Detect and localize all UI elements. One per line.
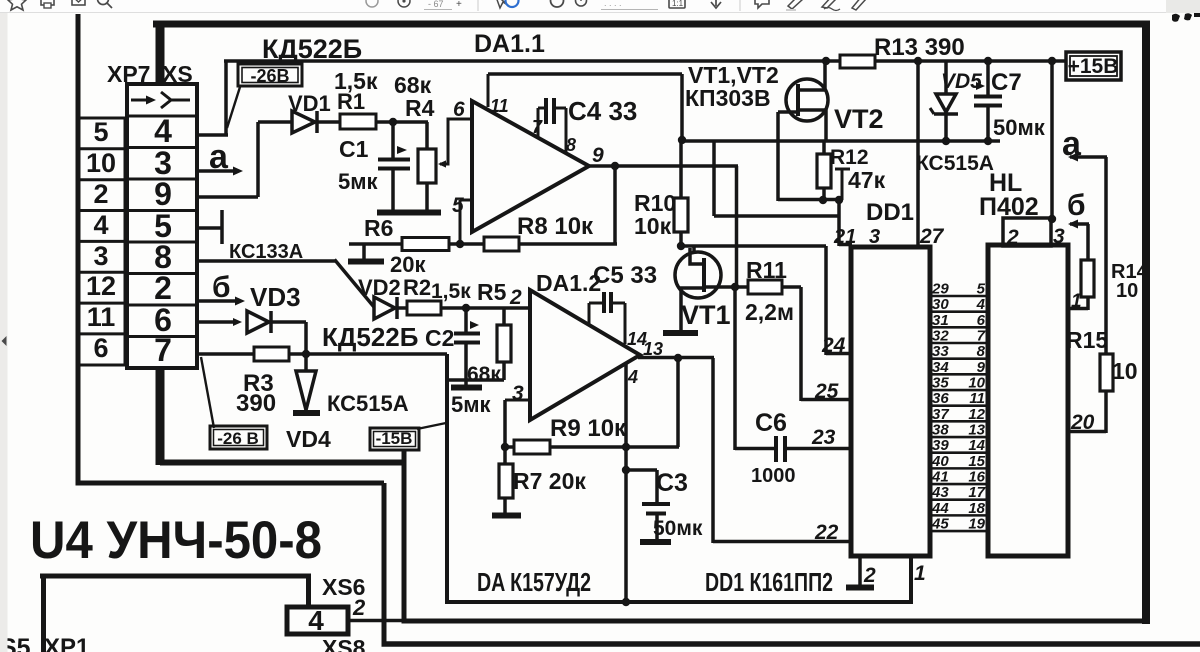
toolbar icon: signature <box>822 0 837 8</box>
svg-text:- 67: - 67 <box>428 0 444 9</box>
wire R11 to DD1 pin25 <box>782 285 801 289</box>
svg-text:2,2м: 2,2м <box>745 299 794 325</box>
svg-text:+15В: +15В <box>1068 55 1119 78</box>
svg-text:VD3: VD3 <box>250 282 301 312</box>
svg-text:32: 32 <box>932 328 949 345</box>
toolbar icon: edit pen <box>852 0 866 10</box>
svg-text:20: 20 <box>1070 411 1095 434</box>
wire R5 bottom to shield <box>447 378 504 382</box>
frame left drop to XS8 <box>382 483 387 646</box>
wire R15 to HL pin20 <box>1104 391 1108 433</box>
sidebar strip <box>0 13 8 652</box>
svg-text:DD1 К161ПП2: DD1 К161ПП2 <box>705 567 833 597</box>
sidebar collapse arrow <box>2 336 7 346</box>
toolbar icon: save/envelope (bottom half) <box>72 0 85 5</box>
capacitor C6 <box>735 447 776 451</box>
svg-text:2: 2 <box>509 286 522 309</box>
svg-text:68к: 68к <box>467 363 501 386</box>
svg-text:R4: R4 <box>405 95 435 121</box>
svg-text:18: 18 <box>968 500 985 517</box>
wire row7 R3 line <box>197 352 447 356</box>
svg-text:DA1.1: DA1.1 <box>474 30 545 58</box>
resistor R12 <box>822 141 826 154</box>
ground bar R6 <box>362 245 366 259</box>
resistor R9 <box>514 440 550 454</box>
svg-text:11: 11 <box>969 390 985 407</box>
toolbar icon: search magnifier (bottom half) <box>98 0 109 5</box>
svg-text:R13 390: R13 390 <box>874 34 965 61</box>
capacitor C1 polarized <box>391 122 395 158</box>
toolbar icon: download arrow <box>715 0 717 6</box>
indicator HL P402 body <box>988 245 1068 556</box>
svg-text:1:1: 1:1 <box>672 0 684 8</box>
svg-text:6: 6 <box>977 312 986 329</box>
svg-text:2: 2 <box>93 179 108 209</box>
svg-text:C5 33: C5 33 <box>593 262 657 289</box>
svg-text:2: 2 <box>352 595 366 620</box>
R4 wiper to pin6 <box>440 163 448 166</box>
wire R10 to VT1 drain rail <box>679 232 683 247</box>
svg-text:R8 10к: R8 10к <box>517 213 594 240</box>
DD1-HL interconnect ladder <box>930 295 988 298</box>
svg-text:DD1: DD1 <box>866 199 914 226</box>
svg-text:19: 19 <box>968 516 985 533</box>
HL top pin box <box>1003 218 1051 246</box>
scan marks top right corner <box>1172 14 1180 22</box>
wire rail to HL top box <box>1050 61 1054 218</box>
wire row6 to VD3 <box>197 320 234 324</box>
svg-text:7: 7 <box>154 332 172 368</box>
svg-text:C3: C3 <box>656 469 688 497</box>
long bottom line L3 <box>382 641 1200 647</box>
resistor R6 <box>402 238 449 251</box>
leader -26V box <box>227 87 240 128</box>
wire XS6 pin2 <box>348 619 404 623</box>
svg-text:DA К157УД2: DA К157УД2 <box>477 567 591 597</box>
connector row divider <box>127 146 197 149</box>
svg-text:2: 2 <box>863 564 876 587</box>
svg-text:20к: 20к <box>390 252 426 277</box>
svg-text:5мк: 5мк <box>338 169 379 194</box>
svg-text:38: 38 <box>932 422 949 439</box>
connector row divider <box>127 272 197 275</box>
svg-text:10к: 10к <box>634 213 672 239</box>
block U4 box top <box>40 574 311 579</box>
svg-text:1000: 1000 <box>751 465 796 487</box>
svg-text:12: 12 <box>86 271 116 301</box>
svg-text:R7 20к: R7 20к <box>513 468 586 494</box>
svg-text:3: 3 <box>1053 225 1065 248</box>
capacitor C4 <box>537 108 540 137</box>
block U4 box left <box>41 576 46 652</box>
toolbar icon: star (bottom half) <box>8 0 26 10</box>
ground bar VT1 source <box>663 330 698 336</box>
connector row divider <box>127 304 197 307</box>
svg-text:2: 2 <box>154 270 172 306</box>
svg-text:КП303В: КП303В <box>685 85 771 111</box>
power box +15V <box>1066 52 1121 80</box>
connector row divider <box>127 178 197 181</box>
wire rail tap to pin21 net <box>712 141 716 216</box>
svg-text:5: 5 <box>452 194 464 217</box>
svg-text:25: 25 <box>814 380 839 403</box>
toolbar icon: circle tool 3 <box>576 0 587 6</box>
svg-text:4: 4 <box>627 367 638 387</box>
svg-text:14: 14 <box>968 437 985 454</box>
svg-text:15: 15 <box>968 453 985 470</box>
svg-text:23: 23 <box>811 426 836 449</box>
svg-text:17: 17 <box>968 484 985 501</box>
svg-text:1: 1 <box>1071 291 1082 312</box>
svg-text:5: 5 <box>93 117 108 147</box>
svg-text:КС515А: КС515А <box>327 391 409 416</box>
svg-text:4: 4 <box>154 113 172 149</box>
svg-text:3: 3 <box>512 382 524 405</box>
frame left border <box>76 14 81 486</box>
toolbar icon: printer (bottom half) <box>41 0 54 5</box>
svg-text:41: 41 <box>931 469 949 486</box>
toolbar icon: circle tool 2 <box>551 0 564 7</box>
long bottom line L2 <box>402 619 1149 624</box>
diode VD1 <box>292 111 315 133</box>
svg-text:9: 9 <box>977 359 986 376</box>
capacitor C7 polarized <box>986 61 990 96</box>
wire R14 to HL pin1 <box>1086 297 1090 310</box>
resistor R7 <box>503 447 507 464</box>
toolbar icon: info circle <box>366 0 378 7</box>
svg-text:XS: XS <box>162 61 193 87</box>
svg-text:31: 31 <box>932 312 949 329</box>
svg-text:R12: R12 <box>830 146 869 169</box>
frame right border <box>1142 21 1150 625</box>
svg-text:5: 5 <box>977 281 986 298</box>
power box -26V bottom <box>210 426 267 449</box>
svg-text:8: 8 <box>566 135 576 155</box>
svg-text:4: 4 <box>976 296 986 313</box>
svg-text:. . . .: . . . . <box>604 0 622 8</box>
svg-text:R1: R1 <box>337 89 365 114</box>
svg-text:10: 10 <box>1116 280 1138 302</box>
leader -26V box 2 <box>201 357 214 428</box>
svg-text:U4 УНЧ-50-8: U4 УНЧ-50-8 <box>30 511 322 570</box>
svg-text:9: 9 <box>154 176 172 212</box>
svg-text:29: 29 <box>931 281 949 298</box>
svg-text:36: 36 <box>932 390 949 407</box>
wire VT1 source node to C6 <box>733 287 737 450</box>
lower rail wire <box>682 139 1000 143</box>
resistor R8 <box>484 237 519 251</box>
svg-text:50мк: 50мк <box>653 517 703 540</box>
wire VT2 gate / R12 to DD1 pin21 <box>778 198 841 202</box>
resistor R14 <box>1081 260 1094 297</box>
trimmer R4 <box>425 122 429 149</box>
svg-text:8: 8 <box>977 343 986 360</box>
wire output to DD1 pin22 <box>711 358 715 543</box>
connector XS body <box>127 84 197 368</box>
toolbar divider <box>477 0 479 11</box>
diode VD3 <box>247 311 269 333</box>
svg-text:VD1: VD1 <box>288 91 331 116</box>
svg-text:КС515А: КС515А <box>916 152 994 175</box>
svg-text:C7: C7 <box>991 69 1022 96</box>
IC DD1 K161PP2 body <box>851 247 930 556</box>
svg-text:-15В: -15В <box>376 429 413 448</box>
toolbar icon: fit to page <box>669 0 685 8</box>
wire DA1.2 output <box>638 356 714 360</box>
capacitor C2 polarized <box>464 308 468 332</box>
svg-text:2: 2 <box>1006 226 1019 249</box>
svg-text:24: 24 <box>821 334 846 357</box>
inner thick bus vertical XP7 top <box>156 24 165 86</box>
svg-text:12: 12 <box>968 406 985 423</box>
svg-text:R15: R15 <box>1066 327 1108 353</box>
ground bar R7 <box>492 513 521 519</box>
connector row divider <box>127 241 197 244</box>
wire DA1.1 output to VT1 gate node <box>735 166 739 288</box>
shield wire vertical from R3 node <box>445 354 449 604</box>
svg-text:10: 10 <box>86 148 116 178</box>
DD1 pin 1 riser <box>909 556 913 604</box>
svg-text:13: 13 <box>968 422 985 439</box>
svg-text:XS8: XS8 <box>322 635 366 652</box>
wire rail to DD1 pin27 <box>916 61 920 247</box>
svg-text:КД522Б: КД522Б <box>262 34 362 64</box>
svg-text:3: 3 <box>93 241 108 271</box>
toolbar icon: select cursor <box>495 0 509 8</box>
toolbar icon: target circle <box>398 0 410 7</box>
wire R1 to R4 node <box>376 120 428 124</box>
svg-text:VT2: VT2 <box>834 104 884 134</box>
svg-text:ХР7: ХР7 <box>107 61 150 87</box>
resistor R10 <box>679 141 683 198</box>
capacitor C3 <box>626 468 657 472</box>
common bar under C1 R4 <box>377 210 441 216</box>
toolbar divider 2 <box>739 0 741 11</box>
svg-text:9: 9 <box>592 144 604 167</box>
feedback line R9 <box>505 445 679 449</box>
svg-text:+: + <box>456 0 462 10</box>
svg-text:35: 35 <box>932 375 949 392</box>
connector XP7 pin column <box>78 118 125 365</box>
svg-text:10: 10 <box>1112 358 1138 384</box>
leader -15V box <box>417 423 446 429</box>
zener VD4 <box>304 354 308 371</box>
resistor R13 <box>840 55 875 68</box>
wire to DD1 pin24 <box>824 246 828 355</box>
connector row divider <box>127 115 197 118</box>
svg-text:390: 390 <box>236 390 276 417</box>
scrollbar corner top right <box>1166 0 1200 13</box>
svg-text:47к: 47к <box>848 167 886 193</box>
svg-text:C6: C6 <box>755 409 787 437</box>
wire pin3 <box>505 399 530 402</box>
zener VD5 <box>944 61 948 94</box>
svg-text:11: 11 <box>87 302 116 332</box>
toolbar icon: highlighter pen <box>788 0 803 9</box>
svg-text:-26 В: -26 В <box>217 429 259 448</box>
R12 tap mark <box>835 168 850 171</box>
loop pin11 C4 <box>487 74 490 107</box>
power box -15V <box>370 428 419 450</box>
svg-text:7: 7 <box>977 328 986 345</box>
svg-text:6: 6 <box>453 98 465 121</box>
shield wire bottom L1 <box>445 600 913 604</box>
svg-text:45: 45 <box>931 516 949 533</box>
svg-text:11: 11 <box>490 96 509 116</box>
svg-text:3: 3 <box>869 226 880 248</box>
wire b to R14 <box>1086 224 1090 261</box>
svg-text:DA1.2: DA1.2 <box>536 270 601 296</box>
svg-text:33: 33 <box>932 343 949 360</box>
svg-text:R2: R2 <box>403 275 431 300</box>
resistor R1 <box>340 114 376 129</box>
svg-text:C1: C1 <box>339 136 369 162</box>
connector row divider <box>127 209 197 212</box>
svg-text:4: 4 <box>93 210 108 240</box>
svg-text:6: 6 <box>93 333 108 363</box>
connector row divider <box>127 335 197 338</box>
wire -15V net drop vertical <box>402 450 407 624</box>
svg-text:XP1: XP1 <box>44 634 89 652</box>
svg-text:R5: R5 <box>477 279 507 305</box>
svg-text:б: б <box>1067 189 1086 222</box>
wire row9 to VD1 <box>197 195 258 199</box>
svg-text:5мк: 5мк <box>451 392 492 417</box>
svg-text:40: 40 <box>931 453 949 470</box>
wire row4 to supply rail <box>197 133 228 137</box>
svg-text:VD2: VD2 <box>358 275 401 300</box>
svg-text:50мк: 50мк <box>993 115 1046 140</box>
svg-text:1: 1 <box>914 562 926 585</box>
transistor VT1 <box>675 252 721 298</box>
svg-text:VD5: VD5 <box>941 70 982 93</box>
browser pdf-viewer toolbar strip <box>0 0 1200 13</box>
svg-text:10: 10 <box>968 375 985 392</box>
svg-text:39: 39 <box>932 437 949 454</box>
connector XS6 pin box 4 <box>287 607 348 634</box>
frame top border <box>153 21 1149 28</box>
svg-text:34: 34 <box>932 359 949 376</box>
svg-text:VT1: VT1 <box>681 300 731 330</box>
svg-text:R6: R6 <box>364 215 393 241</box>
svg-text:16: 16 <box>968 469 985 486</box>
inner thick bus vertical XP7 bottom <box>156 366 165 465</box>
svg-text:R9 10к: R9 10к <box>550 415 627 442</box>
transistor VT2 <box>786 79 828 121</box>
DD1 pin2 ground <box>858 556 862 585</box>
svg-text:КД522Б: КД522Б <box>322 322 418 352</box>
connector plug symbol <box>131 99 152 102</box>
wire pin5 to feedback <box>460 199 472 202</box>
supply rail +15V top <box>224 59 1067 63</box>
svg-text:22: 22 <box>814 521 839 544</box>
svg-text:б: б <box>212 271 231 304</box>
svg-text:44: 44 <box>931 500 949 517</box>
svg-text:-26В: -26В <box>250 66 289 86</box>
resistor R15 <box>1100 354 1113 391</box>
capacitor C5 loop <box>588 303 591 325</box>
svg-text:C4 33: C4 33 <box>568 96 637 126</box>
block U4 box right drop <box>306 576 311 608</box>
wire row8 to VD2 <box>197 259 336 263</box>
zener VD KS133A on row5 <box>197 226 222 230</box>
svg-text:4: 4 <box>308 605 324 636</box>
toolbar icon: comment bubble <box>755 0 769 8</box>
common bar under C2 <box>451 385 482 391</box>
svg-text:37: 37 <box>932 406 949 423</box>
wire a to R15 <box>1104 157 1108 355</box>
frame bottom left border <box>76 481 385 486</box>
resistor R3 <box>254 347 289 361</box>
svg-text:С2: С2 <box>425 325 454 351</box>
power box -26V top <box>238 64 302 86</box>
wire VT2 gate down <box>776 112 780 201</box>
toolbar icon: selected tool blue circle <box>506 0 519 7</box>
inner thick bus bottom <box>160 460 404 466</box>
wire pin4 net vertical <box>624 364 628 602</box>
wire DA1.1 output <box>587 164 738 168</box>
feedback line R6 R8 <box>349 242 617 246</box>
svg-text:30: 30 <box>932 296 949 313</box>
svg-text:VD4: VD4 <box>286 426 331 452</box>
svg-text:43: 43 <box>931 484 949 501</box>
